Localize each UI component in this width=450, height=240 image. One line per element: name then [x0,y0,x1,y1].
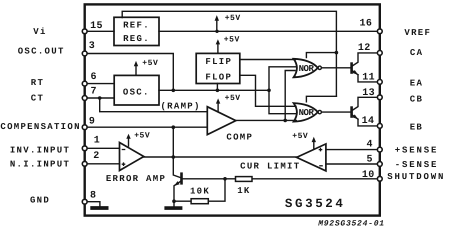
+5V arrow above FLIP FLOP [216,39,220,53]
+5V arrow above COMP [216,98,220,112]
error amp plus input mark [122,162,126,166]
svg-text:10K: 10K [190,187,210,197]
op-amp CUR LIMIT (points left) [297,144,326,171]
wire pin5 -SENSE to cur limit [326,163,380,165]
wire Q1 emitter to pin11 EA [358,75,380,82]
main IC boundary box [85,4,380,215]
NOR gate 1 [294,59,318,78]
wire Q2 collector to pin13 CB [352,97,380,110]
svg-text:+5V: +5V [142,59,158,68]
+5V arrow on vref rail [215,15,219,31]
svg-text:3: 3 [89,41,95,52]
NOR gate 2 [294,103,318,122]
wire pin15 Vi to REF.REG [85,30,114,32]
wire pin4 +SENSE to cur limit [326,149,380,151]
pin 11 terminal [377,80,382,85]
wire error amp output / cur limit bus [144,156,297,158]
svg-text:ERROR AMP: ERROR AMP [106,174,166,184]
node comp bus junction [172,155,176,159]
svg-text:+5V: +5V [292,132,308,141]
svg-text:COMP: COMP [226,133,253,143]
svg-text:6: 6 [90,72,96,83]
svg-text:FLOP: FLOP [205,72,232,82]
pin 6 terminal [82,81,87,86]
svg-text:+5V: +5V [224,35,240,44]
node comparator output junction [283,119,287,123]
svg-text:CB: CB [410,94,423,104]
wire pin6 RT to OSC [85,83,115,85]
svg-text:NOR: NOR [299,64,315,74]
svg-text:9: 9 [89,116,95,127]
wire flip-flop output 2 to NOR2 [240,75,296,106]
pin 4 terminal [377,147,382,152]
ground pin8 [92,206,106,210]
svg-text:EA: EA [410,78,423,88]
pin 9 terminal [82,125,87,130]
cur limit plus input mark [319,148,323,152]
wire 10K left to Q3 emitter [174,200,191,202]
error amp minus input mark [122,149,126,151]
wire ramp line from CT node to comparator [100,98,208,112]
wire pin9 COMPENSATION to comparator input [85,126,208,128]
wire flip-flop clock stub [216,84,218,91]
pin 5 terminal [377,162,382,167]
svg-text:Vi: Vi [33,27,46,37]
svg-text:SHUTDOWN: SHUTDOWN [387,172,445,182]
node CT/ramp junction [98,96,102,100]
cur limit minus input mark [319,165,323,167]
pin 7 terminal [82,96,87,101]
svg-text:1: 1 [94,136,100,147]
svg-text:-SENSE: -SENSE [395,160,439,170]
pin 15 terminal [82,29,87,34]
svg-text:FLIP: FLIP [205,57,232,67]
svg-text:11: 11 [362,73,375,84]
wire pin8 GND to ground [85,202,100,206]
svg-text:10: 10 [362,170,375,181]
pin 8 terminal [82,199,87,204]
svg-text:OSC.: OSC. [123,87,150,97]
svg-text:+5V: +5V [134,132,150,141]
svg-text:1K: 1K [237,186,250,196]
node vref arrow junction [215,30,218,33]
pin 12 terminal [377,51,382,56]
svg-text:12: 12 [358,43,371,54]
wire VREF rail REF.REG to pin16 [159,30,380,32]
resistor 1K body [236,177,253,182]
pin 10 terminal [377,176,382,181]
wire +5V rail from REF.REG top across to NOR column [122,11,336,96]
pin 16 terminal [377,29,382,34]
ground under Q3 [166,206,180,210]
svg-text:CUR LIMIT: CUR LIMIT [240,162,300,172]
+5V arrow above CUR LIMIT [312,137,316,150]
svg-text:4: 4 [366,139,372,150]
node +5V rail / NOR supply junction [335,51,339,55]
transistor Q1 (CA/EA) [350,64,353,73]
wire Q3 base through 1K to pin10 SHUTDOWN [182,178,380,180]
svg-text:REF.: REF. [123,21,150,31]
svg-text:14: 14 [362,116,375,127]
svg-text:13: 13 [362,88,375,99]
svg-text:SG3524: SG3524 [285,197,346,211]
wire flip-flop output 1 to NOR1 [240,59,296,61]
node osc out / pin3 junction [172,89,176,93]
block OSC. [114,75,159,105]
pin 1 terminal [82,146,87,151]
node ff clock junction [216,89,220,93]
transistor Q2 emitter arrow [353,114,359,119]
svg-text:N.I.INPUT: N.I.INPUT [10,160,70,170]
svg-text:8: 8 [90,190,96,201]
svg-text:16: 16 [359,19,372,30]
svg-text:GND: GND [30,196,50,206]
svg-text:+5V: +5V [225,94,241,103]
node Q3 emitter / 10K junction [172,199,176,203]
wire comparator output to NOR2 [236,119,296,121]
svg-text:NOR: NOR [299,108,315,118]
svg-text:+SENSE: +SENSE [395,146,439,156]
wire pin1 INV.INPUT to error amp [85,147,120,149]
+5V arrow above ERROR AMP [126,134,130,147]
pin 14 terminal [377,124,382,129]
wire pin7 CT to OSC [85,97,115,99]
svg-text:VREF: VREF [404,28,431,38]
svg-text:EB: EB [410,123,423,133]
wire pin3 OSC.OUT down to oscillator output [85,54,174,91]
wire NOR1 top supply stub [306,53,336,58]
pin 13 terminal [377,95,382,100]
+5V arrow above OSC [134,61,138,75]
pin 3 terminal [82,51,87,56]
svg-text:M92SG3524-01: M92SG3524-01 [317,219,385,228]
wire comparator output riser to NOR1 [285,71,295,121]
op-amp COMP comparator [207,107,236,135]
wire NOR2 top supply stub [306,96,336,102]
svg-text:RT: RT [31,78,44,88]
node blanking riser junction [267,89,271,93]
block FLIP FLOP [196,53,240,83]
transistor Q3 emitter arrow [174,181,179,186]
resistor 10K body [191,199,208,204]
svg-text:5: 5 [366,155,372,166]
wire blanking riser to NOR1 and NOR2 [269,67,296,114]
svg-text:7: 7 [90,86,96,97]
transistor Q3 shutdown [180,174,183,184]
node Q3 base junction [223,177,227,181]
pin circles left [82,29,382,204]
svg-text:OSC.OUT: OSC.OUT [18,47,65,57]
op-amp ERROR AMP [120,143,144,171]
svg-text:2: 2 [93,151,99,162]
svg-text:COMPENSATION: COMPENSATION [0,122,80,132]
svg-text:(RAMP): (RAMP) [160,101,200,111]
wire NOR1 output to Q1 base [322,67,351,69]
wire pin2 N.I.INPUT to error amp [85,163,120,165]
svg-text:15: 15 [90,21,103,32]
wire 10K right riser [208,179,225,201]
svg-text:REG.: REG. [123,34,150,44]
wire Q1 collector to pin12 CA [352,53,380,66]
svg-text:+5V: +5V [225,14,241,23]
svg-text:INV.INPUT: INV.INPUT [10,146,70,156]
block REF.REG U-ref [114,17,159,45]
transistor Q1 emitter arrow [353,70,359,75]
wire oscillator blanking output [159,89,269,91]
wire NOR2 output to Q2 base [322,111,351,113]
wire Q2 emitter to pin14 EB [358,119,380,126]
node compensation junction [172,125,176,129]
pin 2 terminal [82,161,87,166]
svg-text:CA: CA [410,48,423,58]
wire comp node riser [172,127,174,157]
transistor Q2 (CB/EB) [350,108,353,117]
svg-text:CT: CT [31,93,44,103]
